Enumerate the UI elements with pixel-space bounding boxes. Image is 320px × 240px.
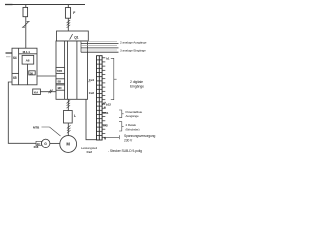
bracket relay outputs 2	[119, 122, 124, 131]
divider above X5	[12, 72, 19, 74]
cell BD	[56, 85, 65, 90]
tacho G circle	[42, 139, 50, 147]
svg-text:MTB: MTB	[33, 126, 40, 130]
svg-text:(Wechsler): (Wechsler)	[126, 127, 140, 131]
svg-text:2 analoge Ausgänge: 2 analoge Ausgänge	[120, 41, 147, 45]
svg-text:F: F	[73, 11, 75, 15]
terminal column divider X4/X5	[18, 48, 20, 85]
block A8	[22, 55, 34, 64]
disconnect mark on KA wire	[49, 90, 53, 94]
power block divider 1	[64, 41, 66, 99]
svg-text:X4: X4	[13, 56, 17, 60]
flexible mark above motor	[67, 125, 71, 133]
cell 7W5	[56, 67, 65, 73]
wire: power block to terminal strip bottom	[86, 99, 97, 139]
svg-text:b1: b1	[106, 57, 110, 61]
analog input line 4	[81, 51, 119, 53]
wire: right drop from bus	[67, 5, 69, 32]
flexible mark above choke	[67, 100, 71, 108]
disconnect point (left drop)	[22, 22, 30, 28]
wire: A8 to bottom	[27, 64, 29, 85]
svg-text:3 analoge Eingänge: 3 analoge Eingänge	[120, 48, 146, 52]
terminal ticks lower	[102, 108, 106, 137]
power block divider 2	[67, 41, 69, 99]
svg-text:M.1.1: M.1.1	[23, 50, 31, 54]
svg-text:230 V: 230 V	[124, 138, 133, 142]
fuse F1 (left)	[23, 7, 28, 16]
svg-text:Cx4: Cx4	[89, 78, 95, 82]
analog input line 3	[81, 49, 117, 51]
switch Q1 contact	[70, 34, 73, 40]
wire: KA to power block	[40, 91, 56, 93]
flexible-connection mark (right drop)	[67, 20, 71, 28]
svg-text:TA2: TA2	[103, 124, 109, 128]
svg-text:Eingänge: Eingänge	[130, 85, 144, 89]
svg-text:2 Relais: 2 Relais	[126, 123, 137, 127]
power block divider 3	[76, 41, 78, 99]
bus bar L1	[5, 4, 85, 6]
svg-text:Ausgänge: Ausgänge	[126, 114, 140, 118]
svg-text:Spannungsversorgung: Spannungsversorgung	[124, 134, 156, 138]
wire: tacho to motor	[50, 142, 60, 144]
svg-text:A8: A8	[26, 58, 30, 62]
wire: left drop from bus	[25, 5, 27, 49]
wire: X5 down-left long run	[8, 82, 36, 143]
svg-text:N: N	[104, 106, 106, 110]
bracket 230V supply	[106, 135, 119, 139]
tick Cx4	[88, 81, 91, 83]
leader MTB to motor	[42, 127, 61, 136]
cell M.1.1	[19, 53, 37, 55]
contactor KA box	[33, 89, 41, 95]
svg-text:2 digitale: 2 digitale	[130, 80, 143, 84]
svg-text:b12: b12	[106, 102, 111, 106]
stub input 2	[6, 56, 11, 58]
svg-text:B5: B5	[58, 80, 62, 84]
terminal rungs	[97, 60, 103, 136]
svg-text:X08: X08	[34, 145, 39, 149]
svg-text:N: N	[104, 136, 106, 140]
fuse F (right)	[65, 8, 70, 19]
svg-text:- Stecker SUB-D 9-polig: - Stecker SUB-D 9-polig	[108, 149, 142, 153]
cell B5	[56, 79, 65, 84]
choke L box	[64, 111, 73, 124]
stub input 1	[6, 52, 13, 54]
disconnect mark on b12	[103, 102, 106, 105]
svg-text:BD: BD	[58, 86, 62, 90]
analog output line 2	[81, 43, 119, 45]
switch Q1 box	[57, 31, 89, 41]
svg-text:Cx2: Cx2	[89, 91, 95, 95]
block S6	[29, 71, 35, 75]
bracket relay outputs 1	[119, 110, 124, 118]
wire: module to power block	[37, 75, 56, 77]
analog input line 1	[81, 45, 117, 47]
bus bar thick end	[5, 4, 13, 6]
svg-text:DA1: DA1	[103, 111, 109, 115]
svg-text:Q1: Q1	[74, 35, 78, 39]
svg-text:S6: S6	[30, 71, 34, 75]
power block outline	[56, 41, 88, 99]
svg-text:X5: X5	[13, 76, 17, 80]
svg-text:Cx2: Cx2	[87, 150, 93, 154]
analog input line 2	[81, 47, 119, 49]
analog output line 1	[81, 41, 117, 43]
motor M circle	[60, 136, 77, 153]
wire: choke to motor	[67, 123, 69, 136]
svg-text:L: L	[74, 114, 76, 118]
bracket digital inputs	[111, 58, 117, 99]
svg-text:7W5: 7W5	[57, 69, 63, 73]
connector X08 box	[36, 141, 42, 145]
module M.1.1 outer box	[12, 48, 37, 85]
wire: power block down to choke	[67, 99, 69, 110]
terminal strip X2	[97, 56, 103, 140]
terminal ticks b1-b12	[102, 58, 105, 104]
node: I/O bus vertical	[80, 41, 82, 52]
